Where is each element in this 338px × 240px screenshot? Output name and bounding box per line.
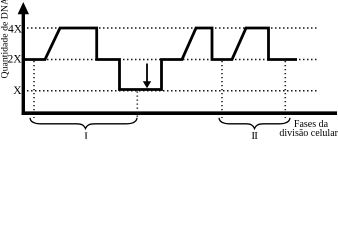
svg-text:I: I (84, 131, 88, 139)
vertical dotted guide region II right (284, 61, 286, 118)
dotted level line 2X (27, 59, 318, 61)
svg-text:Quantidade de DNA: Quantidade de DNA (0, 0, 10, 79)
dotted level line 4X (27, 27, 319, 29)
y-axis shaft (22, 13, 25, 115)
x-axis (22, 111, 337, 115)
svg-text:X: X (13, 85, 22, 97)
brace II (219, 118, 290, 129)
vertical dotted guide region I right (136, 92, 138, 119)
DNA quantity curve (25, 28, 297, 90)
vertical dotted guide region II left (221, 61, 223, 118)
dotted level line X (27, 90, 318, 92)
down arrow in dip (146, 64, 148, 82)
y-axis arrowhead (18, 2, 29, 14)
svg-text:divisão celular: divisão celular (279, 128, 338, 139)
brace I (30, 118, 137, 129)
vertical dotted guide at curve start (region I left) (33, 61, 35, 118)
